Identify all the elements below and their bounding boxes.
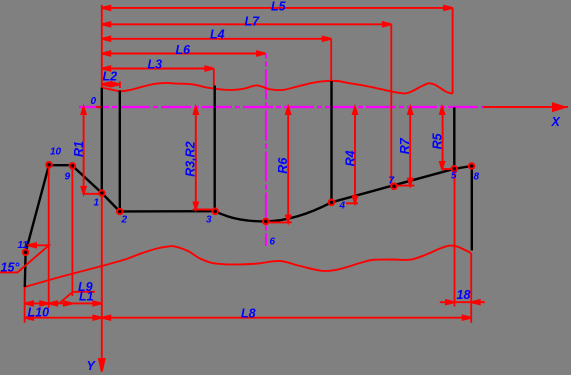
svg-text:8: 8 (474, 172, 480, 183)
svg-text:7: 7 (389, 176, 395, 187)
L4 extension line right (330, 39, 332, 81)
point 7 (391, 184, 397, 190)
profile top edge point10-point9 (49, 164, 72, 166)
svg-text:3: 3 (206, 215, 212, 226)
dimension L4 line (102, 38, 331, 40)
origin red dash on centerline (96, 106, 102, 108)
datum vertical top (above profile) (101, 5, 103, 88)
bottom break wavy line (25, 246, 471, 287)
point 8 (469, 163, 475, 169)
profile right edge below point 8 (471, 166, 473, 251)
point 2 (117, 209, 123, 215)
svg-text:1: 1 (94, 198, 100, 209)
point 5 (452, 166, 458, 172)
svg-text:4: 4 (339, 201, 346, 212)
profile vertical edge x=331.5 (330, 81, 332, 202)
L3 extension line right (213, 69, 215, 86)
svg-text:R5: R5 (430, 132, 444, 149)
svg-text:R7: R7 (398, 137, 412, 154)
radius dim R5 (442, 107, 444, 169)
profile vertical edge x=214.5 (213, 86, 215, 212)
L7 extension line right (down to point 7) (390, 24, 392, 186)
profile slant point9-point1 (72, 166, 101, 193)
profile vertical edge x=454.3 right small (453, 107, 455, 169)
point 1 (99, 190, 105, 196)
dimension L7 line (102, 23, 392, 25)
svg-text:L8: L8 (241, 306, 256, 320)
svg-text:L1: L1 (79, 290, 94, 304)
radius dim R4 (354, 107, 356, 203)
svg-text:15°: 15° (1, 260, 21, 274)
point 4 (329, 200, 335, 206)
svg-text:2: 2 (121, 215, 128, 226)
svg-text:L10: L10 (28, 306, 50, 320)
top break wavy line (102, 81, 453, 94)
profile slant point4-point5 (332, 169, 455, 203)
profile arc point3-point6-point4 (215, 202, 332, 221)
point 6 (263, 219, 269, 225)
extension line point8 down (470, 253, 472, 323)
dimension L10/L8 long bottom line (25, 317, 472, 319)
profile vertical edge x=119.8 (119, 91, 121, 212)
radius dim R3,R2 (195, 107, 197, 210)
svg-text:L3: L3 (148, 58, 163, 72)
profile vertical edge x=102 (101, 88, 103, 194)
dimension L1/L10 chain line (25, 302, 102, 304)
svg-text:L6: L6 (176, 43, 192, 57)
point 10 (46, 162, 52, 168)
svg-text:L7: L7 (245, 15, 261, 29)
svg-text:11: 11 (18, 240, 29, 251)
dimension L2 line (outside arrows) (102, 83, 120, 85)
L5 extension line right (452, 8, 454, 94)
point 11 (23, 250, 29, 256)
dimension L9 short line (72, 291, 95, 293)
svg-text:0: 0 (91, 96, 97, 107)
svg-text:L5: L5 (271, 0, 287, 14)
profile slant point10-point11 (15 deg) (26, 165, 49, 253)
angle dim 15deg leader (0, 245, 49, 272)
svg-text:R1: R1 (72, 141, 86, 157)
svg-text:L2: L2 (103, 70, 118, 84)
point 3 (212, 209, 218, 215)
svg-text:9: 9 (65, 172, 71, 183)
svg-text:5: 5 (451, 171, 457, 182)
radius dim R6 (287, 107, 289, 222)
extension line from point 10 down (48, 165, 50, 308)
Y axis datum vertical bottom (101, 193, 103, 369)
profile slant point5-point8 (454, 166, 471, 169)
vertical centerline through point 6 (265, 54, 267, 247)
dimension L3 line (102, 68, 214, 70)
Y axis arrowhead (99, 359, 105, 372)
L9 leader slant (59, 292, 73, 304)
extension line from point 11 down (24, 287, 26, 323)
dimension 18 line with outside arrows (440, 301, 485, 303)
svg-text:18: 18 (457, 288, 471, 302)
point 9 (70, 163, 76, 169)
svg-text:10: 10 (50, 147, 62, 158)
profile slant point1-point2 (102, 193, 120, 212)
svg-text:R3,R2: R3,R2 (184, 141, 198, 176)
radius dim R1 (83, 107, 85, 194)
dimension L6 line (102, 53, 266, 55)
svg-text:R4: R4 (343, 150, 357, 166)
centerline X axis magenta dash-dot (79, 106, 484, 108)
radius dim R7 (409, 107, 411, 186)
svg-text:6: 6 (270, 237, 276, 248)
profile left edge below point11 (24, 252, 27, 287)
profile bottom edge point2-point3 (120, 210, 215, 213)
extension line point5 down (454, 169, 456, 307)
X axis red segment with arrow (483, 104, 568, 111)
extension line from point 9 down (71, 166, 73, 296)
svg-text:X: X (551, 115, 561, 129)
dimension L5 line (102, 7, 453, 9)
svg-text:L4: L4 (210, 28, 225, 42)
svg-text:R6: R6 (276, 157, 290, 174)
